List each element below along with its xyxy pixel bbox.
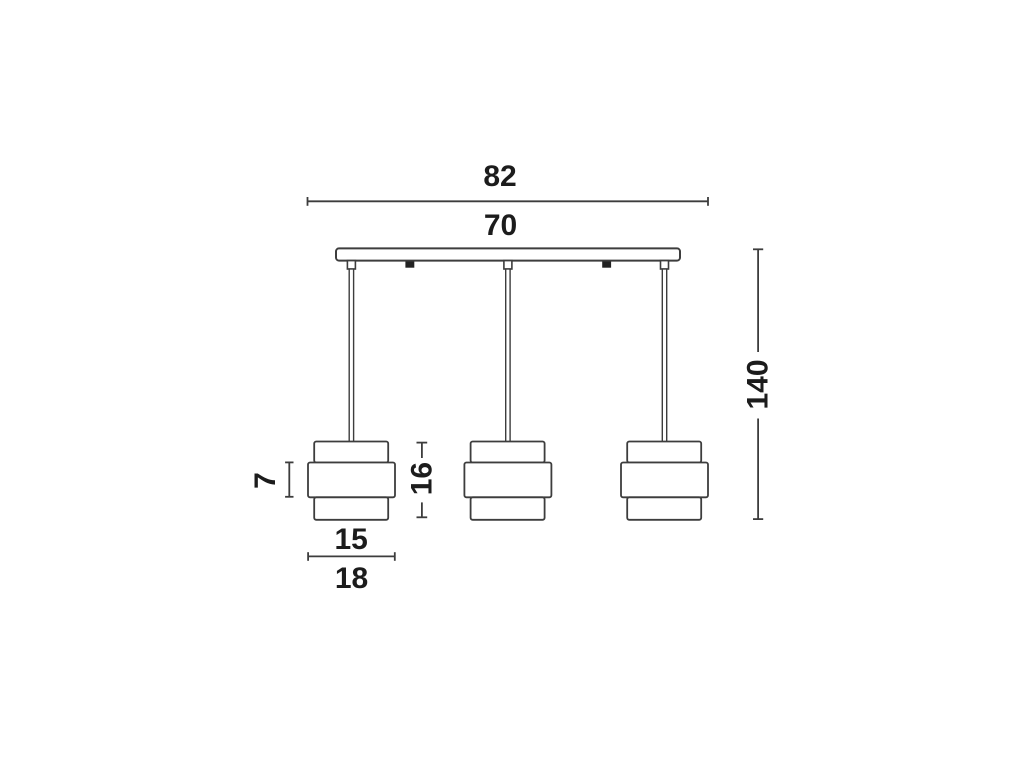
shade 2 top band xyxy=(471,442,545,463)
shade 3 top band xyxy=(627,442,701,463)
cord connector 2 xyxy=(504,261,512,269)
dimension line 140 xyxy=(753,249,763,519)
svg-text:70: 70 xyxy=(484,209,517,242)
svg-text:15: 15 xyxy=(335,523,368,556)
dimension line 7 xyxy=(285,462,293,496)
cord 1 xyxy=(349,269,353,442)
shade 1 top band xyxy=(314,442,388,463)
svg-text:18: 18 xyxy=(335,562,368,595)
svg-text:82: 82 xyxy=(483,160,516,193)
cord connector 1 xyxy=(347,261,355,269)
dimension line 15/18 xyxy=(308,552,395,561)
cord connector 3 xyxy=(661,261,669,269)
cord 2 xyxy=(506,269,510,442)
ceiling canopy bar xyxy=(336,248,680,260)
shade 3 middle band xyxy=(621,463,708,498)
shade 2 middle band xyxy=(464,463,551,498)
shade 2 bottom band xyxy=(471,497,545,520)
cord 3 xyxy=(662,269,666,442)
shade 3 bottom band xyxy=(627,497,701,520)
screw left xyxy=(405,262,414,268)
svg-text:7: 7 xyxy=(249,472,282,489)
dimension line 16 xyxy=(417,443,428,518)
dimension line 82 xyxy=(308,197,709,206)
svg-text:16: 16 xyxy=(405,462,438,495)
svg-text:140: 140 xyxy=(742,359,775,409)
screw right xyxy=(602,262,611,268)
shade 1 middle band xyxy=(308,463,395,498)
shade 1 bottom band xyxy=(314,497,388,520)
